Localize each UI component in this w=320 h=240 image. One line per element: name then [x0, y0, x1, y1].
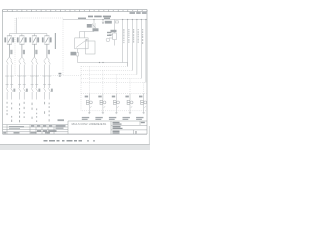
- label value F3: [29, 37, 39, 42]
- page ref arrow: [102, 20, 104, 25]
- label G1: [93, 28, 112, 36]
- terminal row ticks F3: [31, 84, 39, 86]
- node dots on 24V line: [99, 62, 104, 63]
- breaker F4: [44, 34, 49, 58]
- label value F2: [17, 37, 27, 42]
- lower contacts F3: [31, 88, 38, 99]
- label contact F2: [26, 89, 28, 92]
- feeder wire into left enclosure: [9, 18, 47, 34]
- valve Y5: [141, 94, 147, 111]
- wire drop 1: [122, 20, 124, 63]
- wire drop 3: [131, 20, 133, 71]
- node dots on bus: [93, 19, 146, 20]
- wire destination text: [58, 119, 65, 121]
- terminal row ticks F1: [6, 84, 14, 86]
- wire split F2: [20, 57, 25, 60]
- svg-text:8: 8: [135, 131, 137, 135]
- title block texts: [3, 122, 145, 135]
- label contact F4: [51, 89, 53, 92]
- footer print info: [44, 140, 96, 142]
- lower contacts F4: [44, 88, 51, 99]
- terminal ticks F4: [43, 76, 52, 88]
- breaker F3: [32, 34, 37, 58]
- bus wire 24VDC L+: [63, 19, 147, 21]
- relay K1: [106, 20, 118, 46]
- page edge shadow right: [148, 126, 150, 144]
- terminal ticks F2: [18, 76, 27, 88]
- breaker Q10: [80, 20, 96, 38]
- terminal ticks F1: [5, 76, 14, 88]
- terminal ticks F3: [30, 76, 39, 88]
- junction marker on enclosure edge: [59, 73, 62, 77]
- breaker F1: [7, 34, 12, 58]
- svg-text:MCA-S CONV. LINDEREJE B1: MCA-S CONV. LINDEREJE B1: [72, 123, 107, 126]
- enclosure dashed box left: [15, 18, 81, 76]
- ground symbols under valves: [88, 111, 145, 114]
- valve destination texts: [82, 117, 144, 120]
- label K1: [111, 30, 117, 32]
- label terminal numbers F1: [10, 50, 12, 54]
- label contact F3: [38, 89, 40, 92]
- label F11: [71, 52, 77, 56]
- label terminal numbers F2: [23, 50, 25, 54]
- valve Y3: [114, 94, 120, 111]
- lower contacts F1: [6, 88, 13, 99]
- wire labels vertical right: [123, 29, 143, 44]
- wire drop 2: [127, 20, 129, 67]
- wire drop 5: [140, 20, 142, 79]
- label value F4: [42, 37, 52, 42]
- wire drop 4: [136, 20, 138, 75]
- contact pair F1: [6, 60, 13, 76]
- label contact F1: [13, 89, 15, 92]
- label page ref: [105, 21, 112, 24]
- terminal row ticks F2: [18, 84, 26, 86]
- enclosure dashed box right: [81, 66, 147, 111]
- page frame: [3, 10, 148, 135]
- label Q10: [87, 24, 92, 28]
- lower contacts F2: [19, 88, 26, 99]
- wire number labels vertical: [7, 102, 50, 123]
- terminal row ticks F4: [43, 84, 51, 86]
- label terminal numbers F3: [35, 50, 37, 54]
- desk band bottom: [0, 144, 150, 150]
- valve labels: [85, 96, 143, 98]
- wire split F1: [7, 57, 12, 60]
- valve Y4: [127, 94, 133, 111]
- dashed feed runs: [81, 67, 146, 94]
- wire split F3: [32, 57, 37, 60]
- contact pair F3: [31, 60, 38, 76]
- breaker F2: [19, 34, 24, 58]
- valve Y1: [86, 94, 92, 111]
- label enclosure name vertical: [55, 33, 56, 49]
- contact pair F2: [19, 60, 26, 76]
- wire split F4: [45, 57, 50, 60]
- label value F1: [4, 37, 14, 42]
- contact pair F4: [44, 60, 51, 76]
- valve Y2: [100, 94, 106, 111]
- label 24VDC voeding: [78, 12, 147, 19]
- power supply G1: [75, 38, 95, 54]
- wire drop 6: [145, 20, 147, 83]
- label terminal numbers F4: [48, 50, 50, 54]
- fuse F11: [77, 49, 128, 67]
- title block: [3, 121, 147, 134]
